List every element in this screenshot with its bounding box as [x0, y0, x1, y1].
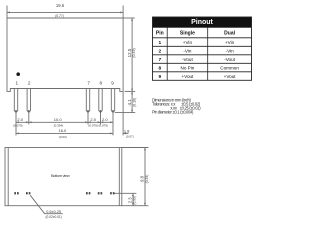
svg-text:-Vout: -Vout: [182, 57, 193, 62]
svg-text:(0.07): (0.07): [126, 134, 134, 138]
pins 1 2 7 8 9 front view: [14, 89, 17, 113]
svg-text:(0.77): (0.77): [55, 14, 64, 18]
svg-text:(0.079): (0.079): [98, 124, 108, 128]
dimension 1.8 (0.07) pin to edge: [123, 132, 128, 134]
svg-text:0.5±0.25: 0.5±0.25: [46, 210, 61, 214]
svg-text:Common: Common: [220, 65, 239, 70]
pin 1 polarity dot: [16, 72, 20, 76]
leader pin size 0.5 +/-0.25: [30, 195, 63, 214]
svg-text:+Vin: +Vin: [183, 40, 193, 45]
dimension 9.8 (0.39) case depth: [122, 147, 149, 149]
svg-text:+Vin: +Vin: [225, 40, 235, 45]
svg-text:19.6: 19.6: [56, 3, 65, 8]
svg-text:No Pin: No Pin: [181, 65, 195, 70]
svg-text:Dual: Dual: [224, 30, 235, 36]
svg-text:(0.394): (0.394): [54, 124, 64, 128]
bottom view pin pads 1 2 7 8 9: [14, 192, 16, 194]
svg-text:Pinout: Pinout: [191, 19, 213, 26]
svg-text:8: 8: [100, 81, 103, 86]
dimension row pin pitch 2.0 10.0 2.0 2.0: [16, 121, 113, 123]
svg-text:8: 8: [158, 65, 161, 71]
dimension 2.3 (0.09) pin row offset: [115, 192, 137, 194]
svg-text:(0.09): (0.09): [133, 196, 137, 205]
svg-text:-Vin: -Vin: [226, 48, 235, 53]
svg-text:(0.079): (0.079): [88, 124, 98, 128]
svg-text:(0.02±0.01): (0.02±0.01): [45, 215, 61, 219]
svg-text:Pin diameter ±0.1 (±0.004): Pin diameter ±0.1 (±0.004): [152, 109, 194, 114]
svg-text:2: 2: [158, 48, 161, 54]
pinout table: [153, 17, 252, 27]
dimension 12.5 (0.49) case height: [123, 17, 135, 19]
svg-text:1: 1: [158, 40, 161, 46]
svg-text:1: 1: [16, 81, 19, 86]
svg-text:(0.16): (0.16): [132, 98, 136, 107]
svg-text:9.8: 9.8: [139, 175, 144, 181]
svg-text:Pin: Pin: [156, 30, 164, 36]
svg-text:9: 9: [111, 81, 114, 86]
svg-text:-Vout: -Vout: [224, 57, 235, 62]
svg-text:9: 9: [158, 74, 161, 80]
bottom view outline: [5, 148, 122, 206]
svg-text:7: 7: [158, 57, 161, 63]
svg-text:(0.49): (0.49): [132, 48, 136, 57]
svg-text:(0.079): (0.079): [13, 124, 23, 128]
svg-text:2.0: 2.0: [17, 117, 23, 122]
svg-text:2: 2: [28, 81, 31, 86]
dimension 19.6 (0.77) overall length: [6, 6, 8, 19]
svg-text:(0.63): (0.63): [59, 135, 67, 139]
svg-text:(0.39): (0.39): [145, 175, 149, 184]
svg-text:2.0: 2.0: [90, 117, 96, 122]
bottom view edge band lines: [7, 148, 9, 206]
svg-text:2.0: 2.0: [102, 117, 108, 122]
dimension 4.1 (0.16) pin length: [115, 112, 135, 114]
svg-text:16.0: 16.0: [59, 128, 68, 133]
svg-text:Single: Single: [180, 30, 195, 36]
pin extension lines: [15, 113, 17, 136]
case edge extension line right: [122, 92, 124, 135]
dimension 16.0 (0.63) pin span: [16, 132, 113, 134]
svg-text:Bottom view: Bottom view: [51, 173, 70, 178]
svg-text:10.0: 10.0: [54, 117, 63, 122]
svg-text:7: 7: [87, 81, 90, 86]
svg-text:-Vin: -Vin: [183, 48, 192, 53]
svg-text:+Vout: +Vout: [224, 74, 237, 79]
svg-text:+Vout: +Vout: [181, 74, 194, 79]
svg-text:1.8: 1.8: [124, 128, 130, 133]
front view case outline: [7, 17, 123, 19]
